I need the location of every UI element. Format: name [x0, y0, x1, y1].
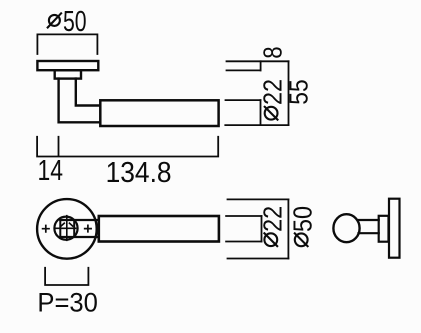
dimension line Ø22 (vertical): [260, 100, 262, 125]
dimension label Ø50 (rose diameter): [63, 6, 87, 38]
diameter symbol of Ø50: [48, 13, 61, 27]
dimension bracket Ø50: [37, 34, 97, 54]
svg-text:P=30: P=30: [37, 287, 98, 317]
dimension label 14: [38, 155, 64, 187]
dimension label P=30: [37, 287, 98, 317]
knob back plate: [389, 199, 400, 258]
dimension line 55 (vertical): [288, 61, 290, 125]
neck circle (front view): [54, 217, 77, 240]
extension line: grip top (front): [226, 215, 261, 217]
screw mark + (right): [85, 225, 91, 231]
extension line: rose top: [227, 60, 289, 62]
svg-text:8: 8: [260, 46, 288, 58]
svg-text:22: 22: [260, 206, 288, 232]
spindle corner ticks: [61, 223, 73, 226]
dimension bracket 14 / 134.8: [37, 137, 218, 157]
neck bar (front view): [60, 220, 99, 237]
svg-text:14: 14: [38, 155, 64, 187]
svg-text:50: 50: [290, 206, 318, 232]
svg-text:134.8: 134.8: [106, 157, 172, 189]
svg-text:22: 22: [260, 79, 288, 105]
neck (side view, bent): [59, 79, 101, 123]
dimension line Ø50 (vertical, front): [287, 199, 289, 258]
neck flange (side view): [55, 70, 81, 78]
screw mark + (left): [43, 226, 49, 232]
dimension label 134.8: [106, 157, 172, 189]
dimension label Ø22 (rotated): [260, 79, 288, 120]
spindle centerline vertical: [66, 216, 68, 241]
knob stem: [358, 220, 379, 233]
knob flange: [379, 216, 389, 242]
dimension label Ø22 (rotated, front): [260, 206, 288, 246]
lever grip (side view): [100, 100, 218, 126]
rose circle (front view): [37, 199, 97, 259]
dimension label 55 (rotated): [286, 79, 314, 105]
knob ball: [333, 214, 359, 242]
extension line: grip bottom: [225, 124, 288, 126]
svg-text:55: 55: [286, 79, 314, 105]
extension line: rose circle top: [228, 198, 289, 200]
spindle centerline horizontal: [56, 227, 75, 229]
spindle square: [60, 220, 74, 237]
rose plate (side view): [37, 61, 98, 70]
lever grip (front view): [99, 216, 219, 242]
dimension label Ø50 (rotated, front): [290, 206, 318, 246]
extension line: grip top: [226, 99, 261, 101]
dimension label 8 (rotated): [260, 46, 288, 58]
extension line: rose bottom: [227, 69, 261, 71]
dimension bracket P=30: [45, 268, 88, 285]
dimension line Ø22 (vertical, front): [261, 216, 263, 242]
extension line: grip bottom (front): [226, 241, 261, 243]
extension line: rose circle bottom: [228, 258, 289, 260]
svg-text:50: 50: [63, 6, 87, 38]
dimension connector 8: [260, 61, 262, 70]
